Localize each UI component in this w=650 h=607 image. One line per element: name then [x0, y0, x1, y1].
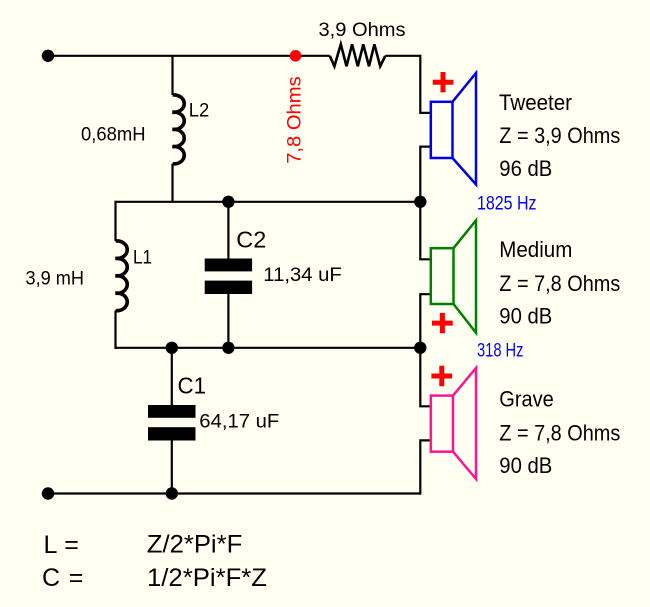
node 7,8 Ohms (red junction dot) — [290, 50, 302, 62]
wire top rail right segment — [385, 55, 420, 57]
inductor L2 wire upper lead — [171, 56, 173, 95]
speaker tweeter (blue) — [431, 73, 476, 185]
wire bottom rail — [48, 492, 420, 494]
svg-text:Tweeter: Tweeter — [499, 90, 572, 115]
svg-text:3,9 Ohms: 3,9 Ohms — [319, 19, 406, 41]
svg-text:L1: L1 — [133, 247, 152, 269]
capacitor C1 wire lower lead — [171, 441, 173, 494]
speaker grave (pink) — [431, 368, 476, 479]
inductor L2 coil — [173, 95, 185, 164]
inductor L2 wire lower lead — [171, 164, 173, 202]
svg-text:90 dB: 90 dB — [499, 304, 552, 329]
svg-text:C1: C1 — [178, 373, 207, 399]
node output - terminal — [42, 487, 54, 499]
svg-text:1825 Hz: 1825 Hz — [477, 193, 537, 214]
inductor L1 wire upper lead — [114, 201, 116, 241]
wire medium bottom stub to bus — [420, 294, 431, 348]
capacitor C1 top plate — [148, 405, 196, 418]
wire middle box top rail — [116, 201, 421, 203]
svg-text:3,9 mH: 3,9 mH — [26, 268, 85, 290]
wire grave bottom stub to bottom rail — [420, 440, 431, 494]
speaker medium (green) — [431, 220, 476, 332]
svg-text:C: C — [42, 564, 60, 592]
svg-text:0,68mH: 0,68mH — [81, 123, 146, 145]
node C2 top junction — [222, 196, 234, 208]
svg-text:C2: C2 — [236, 226, 266, 252]
capacitor C1 wire upper lead — [171, 348, 173, 405]
svg-text:Z/2*Pi*F: Z/2*Pi*F — [147, 531, 242, 559]
svg-text:7,8 Ohms: 7,8 Ohms — [284, 76, 306, 164]
node C1 bottom junction — [166, 487, 178, 499]
node C2 bottom junction — [222, 342, 234, 354]
capacitor C2 bottom plate — [205, 281, 252, 294]
capacitor C1 bottom plate — [148, 427, 196, 440]
svg-text:Z = 7,8 Ohms: Z = 7,8 Ohms — [499, 420, 620, 445]
svg-text:Z = 3,9 Ohms: Z = 3,9 Ohms — [499, 123, 620, 148]
svg-text:Grave: Grave — [499, 387, 554, 412]
capacitor C2 top plate — [205, 259, 252, 272]
svg-text:96 dB: 96 dB — [499, 156, 552, 181]
node bus lower junction — [414, 342, 426, 354]
resistor R (3,9 Ohms) — [330, 44, 385, 66]
wire bus to medium top stub — [420, 202, 431, 259]
wire bus to grave top stub — [420, 348, 431, 407]
svg-text:1/2*Pi*F*Z: 1/2*Pi*F*Z — [147, 564, 267, 592]
svg-text:L: L — [44, 531, 58, 559]
polarity + grave (red) — [431, 366, 452, 386]
wire bus down to tweeter top stub — [420, 55, 431, 113]
capacitor C2 wire lower lead — [227, 294, 229, 348]
svg-text:Z = 7,8 Ohms: Z = 7,8 Ohms — [499, 271, 620, 296]
svg-text:=: = — [64, 531, 79, 559]
node bus mid junction — [414, 196, 426, 208]
svg-text:L2: L2 — [189, 100, 210, 122]
node C1 top junction — [166, 342, 178, 354]
polarity + medium (red) — [432, 313, 453, 333]
inductor L1 wire lower lead — [114, 311, 116, 349]
svg-text:11,34 uF: 11,34 uF — [263, 264, 342, 286]
svg-text:90 dB: 90 dB — [499, 453, 552, 478]
svg-text:Medium: Medium — [499, 237, 572, 262]
capacitor C2 wire upper lead — [227, 202, 229, 259]
wire top rail left segment — [48, 55, 330, 57]
svg-text:318 Hz: 318 Hz — [477, 340, 524, 361]
wire middle box bottom rail — [116, 347, 421, 349]
polarity + tweeter (red) — [433, 72, 454, 92]
svg-text:64,17 uF: 64,17 uF — [199, 411, 279, 433]
svg-text:=: = — [69, 564, 84, 592]
node input + terminal — [42, 50, 54, 62]
wire tweeter bottom stub down to node — [420, 147, 431, 202]
inductor L1 coil — [116, 241, 128, 311]
